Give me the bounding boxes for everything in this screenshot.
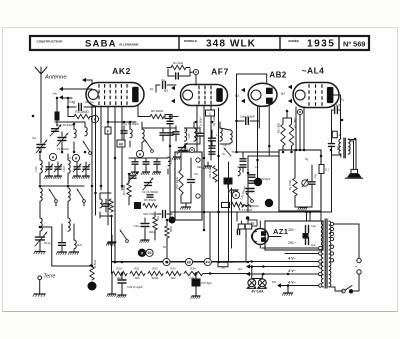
svg-text:0,35: 0,35: [348, 145, 352, 151]
capacitor C31: [209, 130, 216, 146]
svg-text:1kΩ: 1kΩ: [170, 276, 175, 280]
circle dot AB2: [297, 109, 302, 114]
wire left stub: [155, 85, 157, 92]
svg-text:Ha: Ha: [53, 92, 57, 96]
svg-text:16: 16: [150, 87, 154, 91]
svg-text:ALLEMAGNE: ALLEMAGNE: [119, 42, 139, 46]
ground 111: [106, 235, 115, 246]
circled A c: [136, 150, 143, 157]
ground 112: [107, 235, 116, 245]
cluster right of coils coil: [100, 193, 102, 218]
junction dot 46: [341, 119, 344, 122]
wire speaker c: [332, 155, 341, 157]
svg-text:L 1.5mΩ: L 1.5mΩ: [242, 208, 253, 212]
svg-text:Cg: Cg: [223, 143, 227, 147]
cluster resistor: [109, 199, 113, 212]
svg-text:R1 1kΩ: R1 1kΩ: [173, 61, 184, 65]
solder blob V: [138, 249, 146, 257]
arrow into AB2 b: [241, 99, 245, 103]
junction dot 11: [91, 185, 94, 188]
switch S1: [83, 141, 91, 154]
coil L5 upper: [40, 154, 42, 184]
coil mid b: [68, 224, 78, 255]
svg-text:Terre: Terre: [44, 274, 56, 280]
rbox 01 ohm: [218, 262, 228, 269]
wire grid down: [195, 75, 197, 85]
wire heater 266: [246, 264, 319, 268]
svg-text:Ca 100pF: Ca 100pF: [200, 116, 203, 127]
padder capacitor C10: [46, 162, 52, 174]
wire rb top: [283, 110, 292, 118]
circled A r3: [91, 115, 98, 122]
junction dot 32: [320, 155, 323, 158]
junction dot 45: [309, 211, 312, 214]
wire rc right: [189, 69, 191, 76]
wire row link: [129, 157, 168, 159]
ground Ca: [233, 189, 235, 191]
resistor R10 in box: [179, 152, 183, 203]
svg-text:R10 40kΩ: R10 40kΩ: [175, 177, 179, 189]
svg-text:A: A: [75, 156, 78, 160]
ground above box: [176, 156, 178, 158]
wire 170 vert: [169, 126, 171, 218]
tap circles right: [330, 222, 333, 262]
junction 210: [209, 261, 212, 264]
wire left vert 68: [67, 98, 69, 117]
svg-text:L03: L03: [34, 166, 38, 171]
coil hatch c: [0, 0, 1, 1]
wire AK2 grid row: [108, 121, 136, 123]
resistor R1 top: [167, 65, 190, 69]
svg-text:Ck: Ck: [185, 147, 189, 151]
capacitor Cg4: [332, 107, 341, 140]
antenna: [35, 67, 47, 79]
capacitor Ca AK2: [92, 106, 96, 152]
switch S6: [120, 230, 128, 242]
capacitor C1 antenna variable: [36, 130, 47, 153]
resistor R4: [127, 174, 131, 205]
svg-text:3+: 3+: [222, 152, 226, 156]
svg-text:AF7: AF7: [211, 67, 229, 77]
svg-text:Antenne: Antenne: [44, 75, 67, 81]
svg-text:MODELE: MODELE: [184, 39, 197, 43]
coil L15: [242, 205, 251, 207]
svg-text:H2: H2: [235, 94, 239, 98]
coil L6 upper: [68, 154, 70, 184]
coil L4: [85, 122, 87, 136]
wire band bus: [63, 97, 72, 99]
dial lamp 1: [246, 279, 256, 289]
resistor R6 5k: [90, 215, 94, 280]
ground heater: [282, 286, 292, 296]
bus 261 long: [112, 261, 319, 263]
box power: [265, 221, 323, 250]
page bottom edge: [3, 311, 398, 313]
junction dot 19: [203, 157, 206, 160]
coil L7 lower: [40, 188, 42, 212]
junction dot 1: [114, 157, 117, 160]
circled P4: [204, 258, 211, 265]
rbox F: [105, 127, 111, 134]
svg-text:R50: R50: [169, 226, 173, 232]
rbox K6: [117, 140, 125, 147]
capacitor C in box: [188, 158, 195, 203]
capacitor C47 dark: [191, 274, 200, 299]
title divider 3: [338, 36, 340, 50]
coil L8 lower: [68, 188, 70, 212]
junction dot 25: [256, 159, 259, 162]
junction dot 44: [305, 211, 308, 214]
junction dot 13: [110, 215, 113, 218]
svg-text:SABA: SABA: [85, 38, 117, 49]
junction dot 43: [287, 273, 290, 276]
wire 231 vert: [231, 188, 233, 248]
svg-text:C47 8μF: C47 8μF: [201, 281, 212, 285]
resistor R20: [112, 271, 127, 275]
wire antenna down: [40, 79, 42, 112]
wire top link: [55, 121, 85, 123]
speaker: [346, 169, 363, 178]
capacitor C15: [121, 126, 127, 140]
wire AF7 pins: [197, 105, 211, 230]
svg-text:36: 36: [148, 251, 152, 255]
svg-text:Cab=100pF: Cab=100pF: [240, 115, 255, 119]
knob dark: [88, 282, 97, 291]
svg-text:R20: R20: [116, 267, 122, 271]
svg-text:R5 50kΩ: R5 50kΩ: [144, 198, 157, 202]
wire bottom coil link: [0, 0, 1, 1]
svg-text:Ra 1MΩ: Ra 1MΩ: [293, 118, 297, 128]
svg-text:Rg 15kΩ: Rg 15kΩ: [288, 180, 292, 190]
svg-text:1: 1: [209, 112, 211, 116]
svg-text:Ca: Ca: [255, 165, 259, 169]
wire 92 long: [91, 152, 93, 215]
svg-text:Cg: Cg: [161, 78, 165, 82]
wire R6 right: [172, 116, 178, 118]
junction h1: [287, 284, 290, 287]
svg-text:R23: R23: [170, 267, 176, 271]
svg-text:4kΩ: 4kΩ: [77, 243, 82, 247]
transformer primary: [321, 221, 323, 287]
switch contact b: [357, 270, 361, 274]
wire sec bottom: [331, 287, 342, 291]
title divider 1: [178, 36, 180, 50]
wire AB2 mid bus: [237, 151, 287, 153]
wire AK2 left b: [91, 80, 93, 84]
svg-text:K6: K6: [119, 142, 123, 146]
capacitor az left: [237, 230, 239, 235]
svg-text:K: K: [235, 193, 238, 197]
ground padder 2: [72, 174, 80, 179]
svg-text:250 ~: 250 ~: [288, 241, 297, 245]
wire AL4 to right: [333, 94, 341, 96]
wire box to az b: [309, 211, 311, 221]
arrow into AB2 a: [241, 88, 245, 92]
svg-text:0,1: 0,1: [325, 168, 329, 172]
svg-text:V: V: [141, 250, 144, 255]
svg-text:C49 4(+4)μF: C49 4(+4)μF: [127, 285, 143, 289]
junction b1: [114, 261, 117, 264]
junction dot 6: [73, 151, 76, 154]
padder trimmer arrow 0: [45, 164, 53, 172]
wire 204 to 212: [203, 198, 205, 212]
wire AB2 top link: [0, 0, 1, 1]
arrow wave band: [53, 87, 92, 100]
wire 115 down: [114, 261, 116, 263]
wire az stub: [236, 212, 238, 221]
svg-text:(0+1)p: (0+1)p: [85, 100, 94, 104]
wire 210 vert: [209, 212, 211, 262]
coil L13: [168, 157, 170, 174]
circled grid cap: [193, 69, 198, 74]
circled 66: [185, 258, 192, 265]
wire sec to switch: [334, 224, 359, 258]
choke hatched AB2: [289, 152, 297, 158]
svg-text:800: 800: [336, 145, 340, 150]
capacitor in box: [309, 165, 315, 196]
svg-text:1kΩ: 1kΩ: [134, 276, 139, 280]
svg-text:CONSTRUCTEUR: CONSTRUCTEUR: [37, 39, 64, 43]
svg-text:M2: M2: [272, 280, 276, 284]
svg-text:REL: REL: [197, 165, 203, 169]
junction dot 38: [209, 272, 212, 275]
wire bus 262 left: [112, 261, 249, 263]
svg-text:F: F: [107, 129, 109, 133]
wire switch left: [335, 290, 343, 292]
wire AK2 anode down: [138, 105, 150, 117]
capacitor C17: [173, 126, 179, 141]
capacitor C2 top: [168, 73, 190, 79]
rbox TS: [248, 220, 257, 226]
box AL4 feedback: [279, 150, 321, 211]
capacitor C16 pair: [160, 128, 173, 141]
svg-text:H2: H2: [164, 89, 168, 93]
rbox right: [0, 0, 1, 1]
capacitor Ck AF7: [180, 146, 188, 163]
junction coils a: [39, 185, 42, 188]
resistor Rg 10k: [213, 166, 217, 182]
switch contact a: [357, 258, 361, 262]
arrow into AL4 b: [288, 99, 292, 103]
ground gang: [34, 252, 45, 255]
svg-text:Cab 10-30pF: Cab 10-30pF: [56, 123, 74, 127]
svg-text:Rm: Rm: [156, 216, 160, 220]
wire if top a: [185, 127, 201, 129]
svg-text:Ca: Ca: [32, 136, 36, 140]
dark blob mid: [169, 217, 176, 224]
capacitor mid a: [56, 224, 66, 255]
junction dot 4: [39, 151, 42, 154]
wire lamp2: [261, 274, 263, 279]
junction 212a: [203, 211, 206, 214]
resistor R22: [148, 271, 163, 275]
wire az top: [259, 221, 261, 229]
circled 73: [163, 258, 170, 265]
junction dot 24: [247, 172, 250, 175]
junction dot 5: [61, 151, 64, 154]
rbox 1: [206, 110, 215, 116]
capacitor on 331: [329, 144, 335, 147]
wire 321 vert: [320, 211, 322, 221]
capacitor Cab trimmer: [50, 125, 61, 136]
padder trimmer arrow 3: [82, 164, 90, 172]
padder capacitor C13: [83, 162, 89, 174]
resistor az left: [238, 216, 252, 261]
wire if bot a: [185, 143, 201, 145]
padder trimmer arrow 2: [73, 164, 81, 172]
padder capacitor C12: [74, 162, 80, 174]
svg-text:Cpa: Cpa: [311, 224, 316, 228]
junction dot 27: [282, 151, 285, 154]
variable capacitor C1d: [143, 178, 153, 190]
junction dot 10: [67, 97, 70, 100]
arrow into AF7 a: [171, 86, 175, 90]
wire 95 long: [95, 152, 97, 215]
svg-text:C1 15-500pF: C1 15-500pF: [142, 190, 159, 194]
svg-text:R6 500Ω: R6 500Ω: [151, 109, 164, 113]
wire AK2 pins: [101, 106, 122, 262]
svg-text:15-500pF: 15-500pF: [57, 147, 69, 151]
junction dot 18: [211, 121, 214, 124]
coil hatch b: [0, 0, 1, 1]
switch S3: [77, 189, 85, 206]
capacitor C1c trimmer: [128, 172, 138, 182]
svg-text:350 ~: 350 ~: [288, 228, 297, 232]
switch S8: [246, 193, 253, 202]
variable cap above box: [177, 143, 187, 154]
rbox C26: [165, 115, 172, 119]
junction dot 41: [251, 260, 254, 263]
padder trimmer arrow 1: [54, 164, 62, 172]
wire speaker b: [350, 140, 356, 170]
resistor R50: [165, 220, 169, 262]
ground in box: [180, 203, 191, 210]
wire speaker d: [0, 0, 1, 1]
rel circle b: [196, 194, 200, 198]
junction dot 29: [299, 149, 302, 152]
svg-text:66: 66: [187, 260, 191, 264]
capacitor C49: [117, 274, 126, 298]
variable capacitor C2 gang: [35, 232, 47, 252]
coil L21: [220, 122, 222, 141]
svg-text:A: A: [139, 152, 142, 156]
capacitor row C19: [141, 158, 149, 175]
wire lamp1: [251, 267, 253, 279]
circled A a: [49, 153, 56, 160]
junction dot 39: [217, 261, 220, 264]
svg-text:AK2: AK2: [112, 66, 131, 76]
resistor R6 500: [150, 114, 164, 118]
branch horiz: [52, 265, 93, 268]
oscillator coil L11: [130, 122, 132, 147]
circled A b: [72, 154, 79, 161]
junction dot 40: [247, 261, 250, 264]
junction dot 9: [56, 97, 59, 100]
tube AZ1: [252, 229, 269, 245]
svg-text:4V 0,6A: 4V 0,6A: [251, 290, 264, 294]
wire 248 vert: [247, 156, 249, 212]
junction dot 30: [295, 149, 298, 152]
junction 68-107: [67, 106, 70, 109]
junction dot 7: [84, 151, 87, 154]
svg-text:T6: T6: [231, 150, 235, 154]
junction dot 47: [354, 138, 357, 141]
variable capacitor C1a: [57, 132, 68, 152]
junction dot 26: [268, 145, 271, 148]
capacitor C33: [240, 152, 246, 172]
wire lamp link: [252, 278, 262, 280]
junction dot 48: [166, 219, 169, 222]
wire heater 274: [246, 272, 319, 276]
wire rbox down: [0, 0, 1, 1]
capacitor row C20: [152, 158, 160, 175]
wire ak2 cath down: [114, 106, 116, 262]
svg-text:R22: R22: [152, 267, 158, 271]
switch S2: [49, 189, 57, 206]
coil L21b: [230, 130, 232, 143]
terminal box left a: [0, 0, 1, 1]
resistor R21: [130, 271, 145, 275]
svg-text:R 5kΩ: R 5kΩ: [93, 260, 97, 268]
svg-text:Cag: Cag: [69, 100, 75, 104]
junction dot 2: [100, 185, 103, 188]
branch link top: [39, 226, 52, 229]
output transformer: [339, 138, 350, 158]
coil left a: [0, 0, 1, 1]
junction g2: [129, 121, 132, 124]
svg-text:ANNÉE: ANNÉE: [288, 38, 299, 43]
junction c47: [195, 272, 198, 275]
wire 228 vert: [228, 162, 230, 262]
ground padder 1: [53, 174, 61, 179]
junction g1: [123, 121, 126, 124]
coil left b: [0, 0, 1, 1]
circled dot above box: [190, 148, 195, 153]
wire 218 vert: [218, 108, 220, 262]
junction dot 42: [262, 265, 265, 268]
transformer core: [325, 219, 327, 288]
wire coil link row: [40, 185, 84, 187]
svg-text:4 V~: 4 V~: [288, 281, 296, 285]
wire AK2 left a: [86, 79, 92, 81]
svg-text:C5: C5: [194, 172, 198, 176]
svg-text:1935: 1935: [307, 39, 335, 50]
wire AL4 pins: [296, 107, 304, 150]
coil L12: [142, 122, 144, 150]
svg-text:C4a: C4a: [133, 224, 139, 228]
junction dot 35: [121, 261, 124, 264]
box relay: [175, 152, 202, 220]
solder blob V2: [254, 178, 262, 186]
resistor R5: [143, 203, 157, 207]
junction dot 0: [107, 121, 110, 124]
capacitor C30 dark: [197, 128, 204, 144]
tap circles left: [319, 246, 322, 287]
svg-text:Cg 4μF: Cg 4μF: [331, 103, 341, 107]
svg-text:H2: H2: [281, 92, 285, 96]
junction dot 14: [128, 173, 131, 176]
wire cluster top: [100, 192, 111, 194]
rbox P: [222, 203, 230, 208]
junction l1: [251, 265, 254, 268]
ground padder 0: [44, 174, 52, 179]
wire terre: [39, 280, 41, 294]
rbox 01: [319, 165, 324, 174]
coil L3: [74, 124, 76, 152]
svg-text:H2: H2: [238, 267, 242, 271]
junction dot 12: [94, 192, 97, 195]
junction l2: [262, 273, 265, 276]
